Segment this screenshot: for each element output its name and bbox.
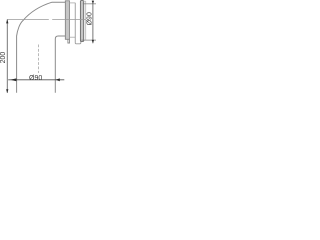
socket ring 2 (bulge) — [80, 1, 83, 42]
dimension bottom Ø90: line — [8, 79, 64, 81]
dimension 200: bottom arrow — [6, 89, 8, 93]
elbow outer bend outline — [17, 2, 66, 93]
socket neck bottom edge — [70, 36, 76, 38]
elbow inner corner outline — [55, 36, 65, 93]
svg-text:200: 200 — [0, 52, 7, 64]
socket end top edge — [84, 0, 86, 2]
vertical centerline (dashed) — [37, 45, 39, 74]
dimension bottom Ø90: right arrow — [56, 78, 60, 81]
dimension right Ø90: top arrow — [92, 1, 94, 4]
dimension right Ø90: bottom extension line — [81, 39, 96, 41]
socket ring 1 — [65, 1, 69, 40]
dimension right Ø90: bottom arrow — [92, 40, 94, 44]
socket neck top edge — [70, 2, 76, 4]
dimension right Ø90: top extension line — [83, 3, 96, 5]
dimension right Ø90: line — [92, 0, 94, 43]
svg-text:Ø90: Ø90 — [86, 12, 93, 25]
horizontal centerline — [7, 19, 49, 21]
socket ring 1 lip tail — [68, 39, 70, 43]
socket neck seam and lower lip pocket — [75, 3, 81, 44]
dimension 200: line — [6, 19, 8, 93]
dimension 200: top arrow — [6, 19, 8, 23]
dimension bottom Ø90: left arrow — [10, 78, 16, 81]
socket end face — [85, 1, 87, 40]
svg-text:Ø90: Ø90 — [29, 75, 42, 82]
